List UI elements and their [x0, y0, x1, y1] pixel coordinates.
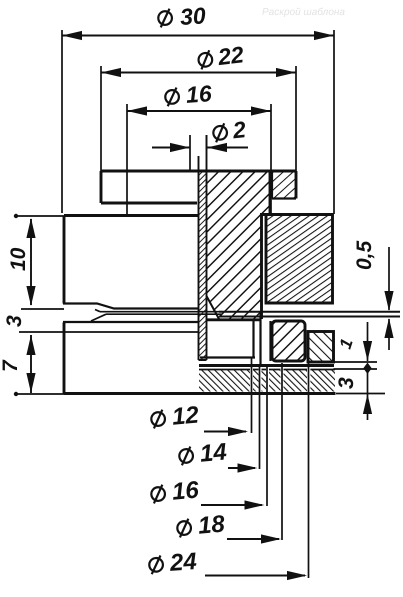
svg-text:16: 16 [171, 476, 201, 505]
bottom ext line right [336, 393, 385, 395]
spigot right edge [259, 312, 261, 366]
dim 0,5 arrows right [384, 247, 393, 350]
dim ⌀2 arrows [152, 143, 248, 152]
⌀2 extension ticks [190, 135, 207, 170]
nozzle column section hatch [207, 171, 271, 319]
left ext line top (body top) [14, 214, 64, 218]
capillary tube walls [199, 135, 207, 360]
left ext line at slot top [21, 308, 64, 310]
svg-text:16: 16 [185, 80, 213, 108]
svg-text:12: 12 [171, 401, 201, 430]
housing right upper block outline [260, 215, 333, 304]
dim line ⌀16 top [127, 106, 271, 115]
svg-text:10: 10 [7, 247, 30, 271]
slot in left body [63, 304, 199, 323]
label ⌀12 [150, 401, 200, 432]
gasket band top edge [199, 369, 335, 371]
needle inside slot [91, 310, 222, 322]
gasket gaps for extension lines [250, 368, 310, 393]
svg-text:3: 3 [335, 377, 358, 389]
svg-text:0,5: 0,5 [353, 240, 376, 270]
bold line under blocks [199, 364, 334, 367]
right ext lines for dim 1 [334, 362, 378, 369]
ext line ⌀22 right [295, 66, 297, 171]
flange right section hatch [272, 171, 296, 199]
dim 7 vertical [26, 335, 35, 393]
ext line ⌀16 left [126, 104, 128, 215]
gasket band hatch [199, 370, 335, 392]
ext line ⌀22 left [100, 66, 102, 171]
label ⌀30 [157, 2, 206, 31]
chamber below seat [200, 320, 255, 358]
svg-text:Раскрой шаблона: Раскрой шаблона [262, 7, 345, 18]
label ⌀16 bottom [150, 476, 200, 507]
nozzle column outline [260, 171, 270, 319]
nozzle bottom edge [205, 318, 262, 321]
union nut block hatch [272, 321, 305, 361]
capillary tube ⌀2 section [199, 171, 207, 360]
right small block hatch [308, 332, 334, 363]
ext line ⌀30 left [61, 30, 63, 213]
svg-text:24: 24 [168, 548, 198, 577]
svg-text:14: 14 [199, 438, 228, 467]
svg-text:30: 30 [179, 2, 207, 30]
nozzle seat cone edge [207, 296, 220, 319]
corridor edge [269, 321, 271, 361]
dim 10 vertical [26, 218, 35, 306]
left ext line bottom with dot [14, 392, 64, 396]
label ⌀14 [178, 438, 228, 469]
dim ⌀14 bottom [228, 463, 258, 472]
svg-text:22: 22 [216, 41, 246, 70]
dim 1 and 3 vertical line [363, 322, 372, 420]
label ⌀22 [197, 41, 245, 72]
svg-text:3: 3 [3, 315, 26, 327]
bottom plate line [64, 392, 336, 395]
label ⌀24 [148, 548, 197, 578]
svg-text:2: 2 [231, 116, 248, 143]
dim ⌀16 bottom [201, 500, 265, 509]
housing right upper block hatch [266, 215, 333, 304]
svg-text:18: 18 [197, 510, 227, 539]
bottom extension lines [252, 358, 309, 578]
dim line ⌀30 [62, 31, 334, 40]
flange right section edges [272, 171, 296, 199]
ext line ⌀16 right [270, 104, 272, 213]
svg-text:7: 7 [0, 359, 22, 372]
ext line ⌀30 right [333, 30, 335, 214]
left ext line below slot [19, 331, 199, 333]
dim ⌀12 bottom [204, 427, 248, 436]
dim ⌀18 bottom [227, 534, 281, 543]
label ⌀16 top [164, 80, 212, 109]
dim ⌀24 bottom [205, 571, 307, 580]
flange outline (view) [101, 171, 296, 203]
dim line ⌀22 [101, 68, 296, 77]
left body outline (view) [64, 216, 199, 395]
thin tube to the right [219, 312, 400, 317]
label ⌀2 [212, 116, 247, 145]
label ⌀18 [176, 510, 226, 541]
